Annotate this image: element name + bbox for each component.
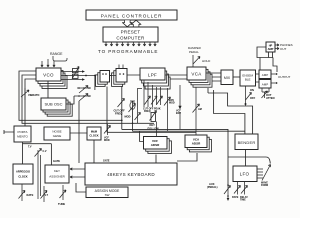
svg-text:MENTO: MENTO [17,135,28,139]
svg-text:VIBRATO: VIBRATO [28,93,39,97]
svg-text:BENDER: BENDER [238,140,256,145]
ARPEGGIO CLOCK box [13,146,33,185]
branch into VCF ADSR left [140,131,144,141]
svg-text:AMP: AMP [262,83,269,87]
preset computer box [103,27,158,42]
VCO output wires and junctions [61,70,116,90]
svg-text:AMP: AMP [262,73,269,77]
svg-text:TO PROGRAMMABLE: TO PROGRAMMABLE [98,49,158,54]
vibrato pot [21,88,39,100]
svg-text:LFO: LFO [240,172,250,177]
cv pot column [35,149,47,200]
VCF ADSR stacked box [144,137,172,164]
svg-text:GATE: GATE [103,160,110,163]
svg-text:MOD: MOD [169,102,175,105]
bus wire 2 from VCO [22,75,154,123]
svg-text:ENV: ENV [176,112,181,115]
svg-text:HP: HP [269,44,273,48]
small mixer box stack down-left [96,71,110,87]
route A VCA to bender [208,88,253,134]
svg-text:KEY: KEY [54,169,60,173]
mid routing line La to aux [122,129,228,184]
lpf pots group [143,94,163,113]
env pot [164,88,175,131]
mid routing line Lc [107,131,196,133]
ensemble on/off switch [245,86,256,106]
ENSEMBLE box [233,70,256,86]
ASSIGN MODE SW box [76,183,128,198]
svg-text:RATE: RATE [232,196,239,199]
svg-text:T.V: T.V [28,146,32,149]
cutoff freq pot [114,87,126,130]
svg-text:AMP: AMP [268,47,274,51]
arrows to programmable [98,42,158,54]
svg-text:PEAK: PEAK [154,108,161,111]
svg-text:V.T: V.T [45,194,49,197]
bus wire 1 from VCO [19,71,122,120]
svg-text:CLOCK: CLOCK [89,134,98,138]
mid routing line Lb to bender vertical [133,130,245,132]
mod pot [125,101,136,131]
svg-text:ON: ON [250,88,254,92]
LPF stacked box [140,68,170,89]
svg-text:SUB OSC: SUB OSC [44,102,62,107]
PORTA MENTO box [4,126,31,142]
LFO box [233,166,257,182]
svg-text:C.V: C.V [43,150,47,153]
VCA to MIX wires [206,73,221,81]
svg-text:SW: SW [105,193,110,197]
svg-text:GATE: GATE [53,159,60,163]
pulse width dual trimmer [72,67,79,80]
svg-text:ADSR: ADSR [192,142,201,146]
wires below LPF to pots [144,80,161,94]
wave selector switch VCO [77,86,91,94]
svg-text:(PEDAL): (PEDAL) [207,185,218,189]
svg-text:48KEYS KEYBOARD: 48KEYS KEYBOARD [107,172,155,177]
gate wire [51,144,60,165]
KEY ASSIGNER box [45,160,110,184]
svg-text:ADSR: ADSR [151,143,160,147]
svg-text:FOLLOW: FOLLOW [148,127,160,131]
svg-text:COMPUTER: COMPUTER [116,36,145,41]
svg-text:VCA: VCA [191,72,201,77]
svg-text:TUNE: TUNE [58,202,65,206]
svg-text:MOD: MOD [104,139,110,142]
M&M CLOCK box [87,127,101,163]
lfo selector feed [228,157,270,164]
svg-text:RATE: RATE [27,193,34,197]
range label + rotary bracket [41,52,67,67]
VCO stacked box [36,68,67,89]
svg-text:VCO: VCO [43,73,54,78]
SUB OSC stacked box [41,81,72,116]
svg-text:KEY: KEY [150,123,156,127]
48KEYS KEYBOARD box [85,163,177,185]
svg-text:CLOCK: CLOCK [18,175,27,179]
AMP boxes [256,70,272,88]
key follow element [148,111,160,137]
damper env arrow [176,85,182,129]
svg-text:ARPEGGIO: ARPEGGIO [16,170,30,174]
svg-text:RANGE: RANGE [50,52,63,56]
svg-text:FREQ: FREQ [115,112,122,116]
route B VCA to bender [214,90,245,134]
svg-text:HOLD: HOLD [202,59,211,63]
svg-text:PEDAL: PEDAL [189,50,199,54]
bender to lfo wire [245,150,247,167]
am pot [193,87,202,135]
svg-text:ASSIGNER: ASSIGNER [49,175,65,179]
output terminals [271,73,291,84]
VCA ADSR stacked box [177,135,211,161]
svg-text:MIX: MIX [224,76,231,80]
HP AMP box [266,42,293,52]
lfo waveform selector [257,165,271,188]
svg-text:PRESET: PRESET [121,30,141,35]
svg-text:FREQ: FREQ [144,110,151,113]
svg-text:AM: AM [198,108,202,111]
porta to arpeggio wire [23,142,52,164]
P stack drop wire [106,87,108,133]
lfo pots [232,182,248,202]
wave selector switch SUB [66,94,91,164]
svg-text:ATTEN: ATTEN [266,96,275,100]
svg-text:FORM: FORM [261,184,268,187]
svg-text:MOD: MOD [125,115,131,119]
svg-text:OUT: OUT [280,47,287,51]
svg-text:PORTA: PORTA [17,130,27,134]
arpeggio rate pot [19,184,34,201]
bidirectional hollow arrows panel/preset [122,20,141,27]
small HPF box stack [110,65,141,87]
BENDER box [235,134,258,150]
svg-text:PANEL CONTROLLER: PANEL CONTROLLER [101,13,163,18]
svg-text:OUTPUT: OUTPUT [278,75,291,79]
out atten pot [262,88,275,100]
panel controller box [86,10,177,20]
wire VCO to portamento [25,79,36,126]
clock mod pot [104,124,111,142]
svg-text:M&M: M&M [91,130,97,134]
bus2 end pot [135,89,143,124]
svg-text:BLE: BLE [245,78,251,82]
svg-text:NOISE: NOISE [52,130,61,134]
svg-text:OFF: OFF [250,96,256,100]
svg-text:LPF: LPF [148,73,157,78]
svg-text:TIME: TIME [240,199,246,202]
svg-text:GENE: GENE [53,134,62,138]
VCA stacked box [165,67,212,87]
NOISE GENE box [44,127,87,140]
damper pedal + hold switch [188,46,211,67]
aux pedal switch [207,182,231,201]
tune pots under assigner [41,185,67,206]
keyboard to assigner arrows [70,168,85,178]
HP AMP input routing [257,47,277,72]
MIX box [221,70,233,85]
